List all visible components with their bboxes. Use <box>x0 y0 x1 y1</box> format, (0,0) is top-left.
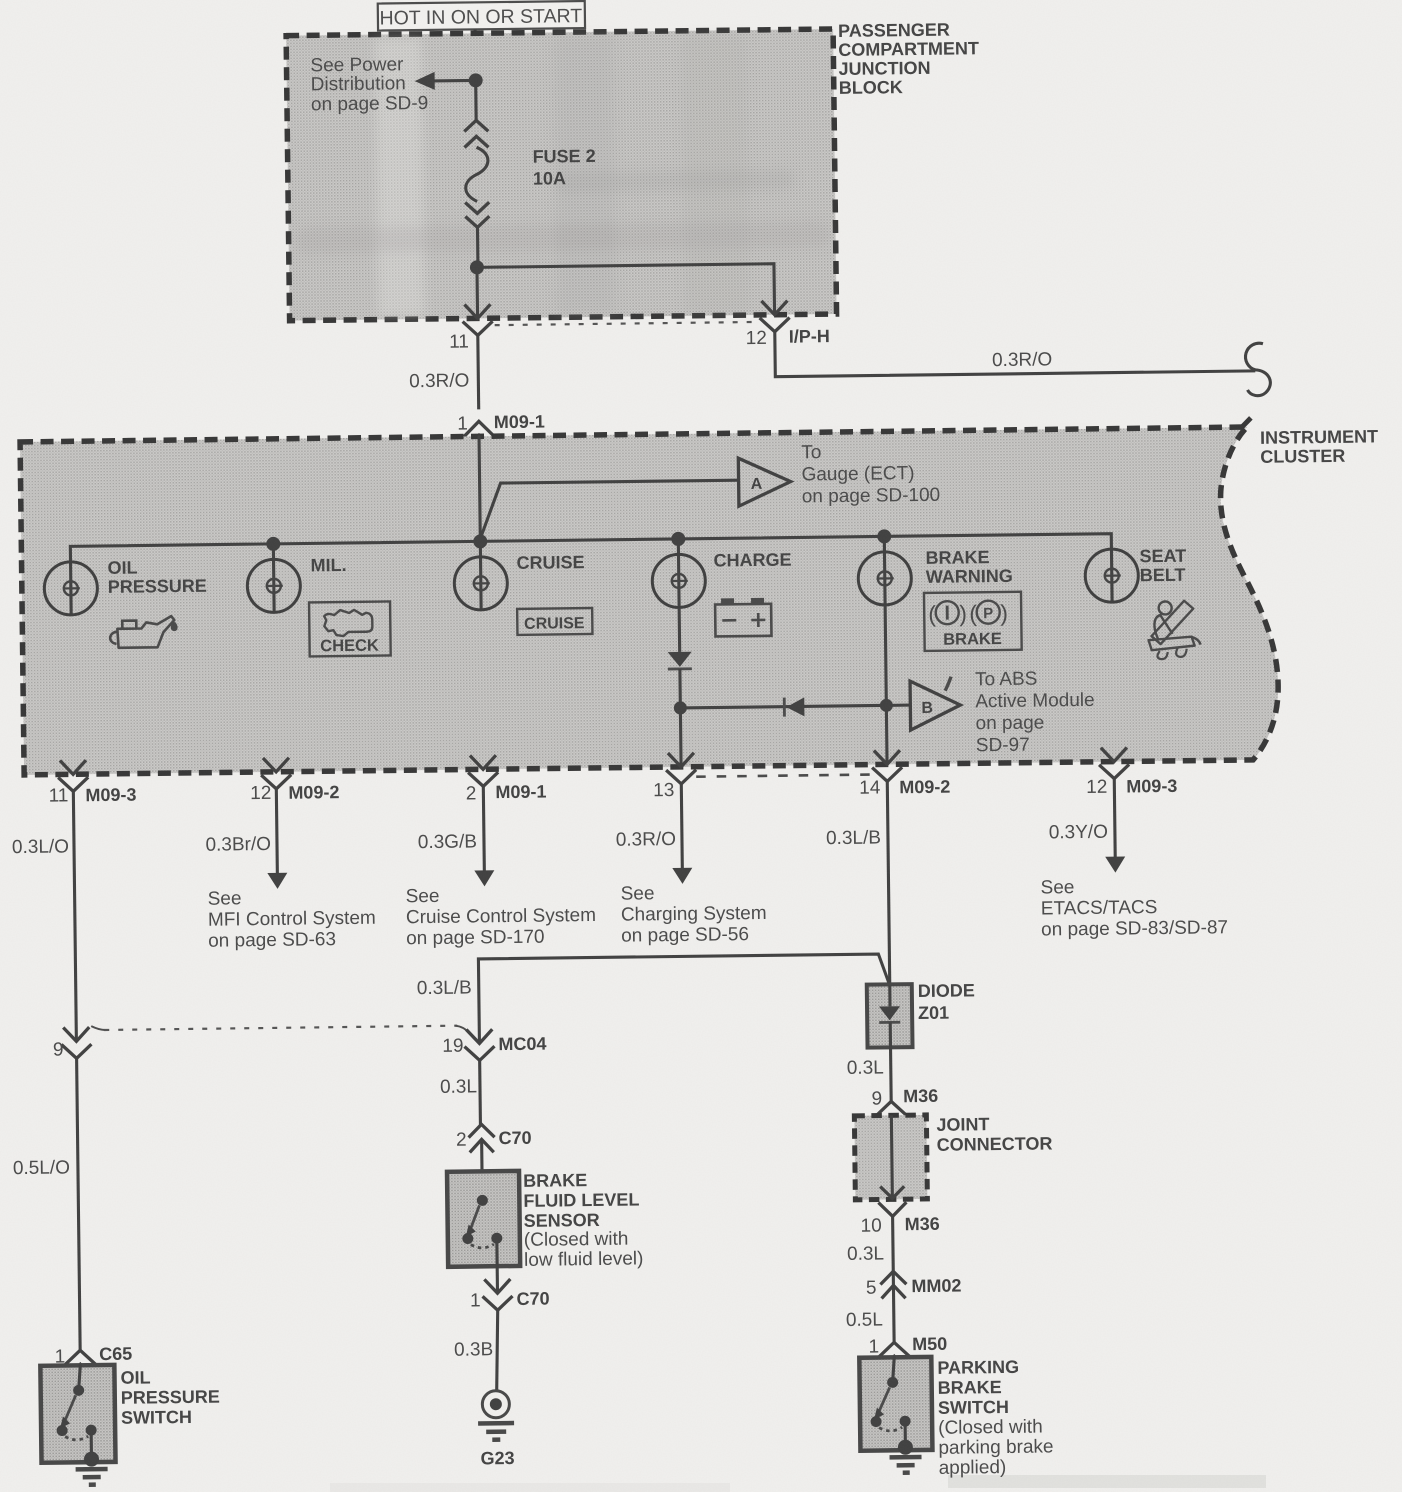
wire sensor to 1 C70 <box>496 1266 499 1293</box>
fuse F2 element 10A <box>465 147 488 201</box>
joint connector label <box>936 1113 1052 1154</box>
triangle B to ABS <box>910 676 961 730</box>
junction block title PASSENGER COMPARTMENT JUNCTION BLOCK <box>838 19 980 98</box>
ground G23 <box>478 1391 515 1440</box>
oil column inline connector to switch <box>77 1058 81 1352</box>
wire M09-1 into cluster to bus <box>479 435 480 541</box>
junction node CHARGE <box>671 532 685 546</box>
arrow to MFI control system <box>267 873 287 889</box>
icon engine <box>324 610 372 637</box>
junction node BRAKE <box>877 529 891 543</box>
inline connector 19 MC04 <box>455 1025 494 1060</box>
instrument cluster title <box>1260 426 1378 466</box>
dashed link connector 9 to MC04 <box>104 1026 457 1030</box>
note charging system <box>621 882 767 947</box>
oil pressure switch box <box>40 1364 115 1467</box>
pin 11 connector at J/B <box>462 304 492 335</box>
wire 0.3L/O oil column <box>73 791 76 1041</box>
icon oil can <box>110 616 178 648</box>
scan artifact streak bottom <box>948 1475 1266 1488</box>
wire to pin 11 <box>475 267 479 317</box>
cruise indicator box <box>517 608 592 635</box>
dashed connector link pins 11-12 <box>495 322 758 325</box>
connector M09-1 entry symbol <box>464 421 494 448</box>
wire 0.3R/O pin11 to M09-1 <box>476 335 480 409</box>
note to ABS active module <box>975 668 1095 756</box>
lamp BRAKE WARNING <box>858 536 912 606</box>
lamp CRUISE <box>454 541 508 611</box>
connector 1 C65 entry <box>65 1350 95 1376</box>
arrow to cruise control system <box>474 870 494 886</box>
wire brake warning to exit 14 <box>885 605 887 764</box>
arrow to power distribution <box>415 71 474 90</box>
inline connector 5 MM02 <box>880 1271 906 1298</box>
wire horizontal to triangle B <box>680 705 910 708</box>
wire 0.3Br/O MIL branch <box>276 789 277 874</box>
junction/node at fuse top <box>469 73 483 87</box>
oil pressure switch label <box>120 1367 220 1428</box>
wire 0.3R/O pin12 to continuation <box>775 326 1256 377</box>
wire 0.3G/B cruise branch <box>483 786 484 871</box>
arrow to ETACS <box>1105 856 1125 872</box>
note MFI control system <box>208 887 377 952</box>
fuse F2 connector chevrons bottom <box>465 202 489 227</box>
wire 0.3R/O charge branch <box>681 784 682 869</box>
wire 0.3L to C70 <box>478 1060 482 1125</box>
parking brake switch label <box>937 1356 1054 1478</box>
icon battery <box>715 598 771 637</box>
icon seat belt <box>1148 601 1201 660</box>
lamp SEAT BELT <box>1085 548 1139 603</box>
triangle A to gauge <box>738 458 791 507</box>
junction block J/B box <box>286 29 836 321</box>
wire 0.3B to ground <box>496 1310 499 1391</box>
junction node charge column <box>674 701 687 714</box>
dashed connector link pins 13-14-12 <box>696 775 873 777</box>
junction node MIL <box>266 537 280 551</box>
wire horizontal brake fluid link <box>478 954 890 1044</box>
junction node below fuse <box>470 260 484 274</box>
wire fuse to junction node <box>476 227 480 267</box>
wire 0.3L diode to M36 <box>889 1047 893 1102</box>
connector exit 10 M36 <box>878 1202 906 1216</box>
pin 12 connector at J/B <box>759 301 789 332</box>
ground below oil pressure switch <box>76 1469 108 1485</box>
inline connector 9 oil column <box>61 1026 105 1059</box>
continuation curl <box>1245 343 1270 396</box>
lamp CHARGE <box>652 539 706 609</box>
junction node CRUISE <box>473 534 487 548</box>
wire 0.3L/B brake fluid branch <box>887 781 889 985</box>
instrument cluster box <box>20 418 1279 775</box>
lamp label OIL PRESSURE <box>107 557 207 597</box>
exit connector pin 14 M09-2 <box>872 750 902 781</box>
fuse F2 label <box>532 146 596 189</box>
wire junction to fuse <box>474 80 478 122</box>
wire to gauge triangle A <box>479 480 740 541</box>
connector 1 M50 entry <box>879 1342 909 1368</box>
brake fluid level sensor label <box>523 1169 644 1270</box>
exit connector pin 12 M09-3 <box>1099 747 1129 778</box>
inline connector 2 C70 <box>468 1124 494 1152</box>
exit connector pin 2 M09-1 <box>468 755 498 786</box>
wire charge column to exit 13 <box>679 708 683 767</box>
diode D1 below charge lamp <box>667 608 692 708</box>
wire 0.5L to M50 <box>892 1285 896 1342</box>
note ETACS/TACS <box>1040 875 1228 940</box>
joint connector box <box>854 1115 927 1200</box>
connector entry joint connector <box>876 1101 906 1127</box>
note cruise control system <box>406 884 597 949</box>
exit connector pin 11 M09-3 <box>58 760 88 791</box>
see power distribution note <box>310 54 428 115</box>
bus wire in cluster <box>70 534 1111 562</box>
wire 0.3Y/O seat belt branch <box>1113 779 1117 858</box>
lamp label SEAT BELT <box>1139 546 1186 586</box>
brake indicator box <box>924 592 1022 651</box>
diode D2 on horizontal wire <box>784 697 804 716</box>
brake fluid level sensor box <box>447 1171 520 1267</box>
diode Z01 label <box>918 980 976 1023</box>
scan texture bands <box>143 30 1102 771</box>
lamp MIL <box>247 544 301 614</box>
note to gauge ECT <box>801 441 940 508</box>
ground below parking brake switch <box>890 1457 922 1473</box>
lamp label BRAKE WARNING <box>925 547 1012 587</box>
wire 0.3L to MM02 <box>891 1216 895 1285</box>
power label HOT IN ON OR START <box>378 1 585 31</box>
diode Z01 box <box>867 984 913 1048</box>
lamp OIL PRESSURE <box>44 561 98 616</box>
inline connector 1 C70 <box>482 1279 512 1310</box>
junction node brake column <box>880 699 893 712</box>
fuse F2 connector chevrons top <box>464 120 488 147</box>
wire into brake fluid sensor <box>480 1139 484 1200</box>
exit connector pin 12 M09-2 <box>261 758 291 789</box>
check engine box <box>309 601 391 656</box>
wire branch to pin 12 <box>477 264 775 318</box>
arrow to charging system <box>672 868 692 884</box>
parking brake switch box <box>859 1356 932 1455</box>
wire from HOT box into junction block <box>474 29 478 80</box>
exit connector pin 13 <box>666 753 696 784</box>
